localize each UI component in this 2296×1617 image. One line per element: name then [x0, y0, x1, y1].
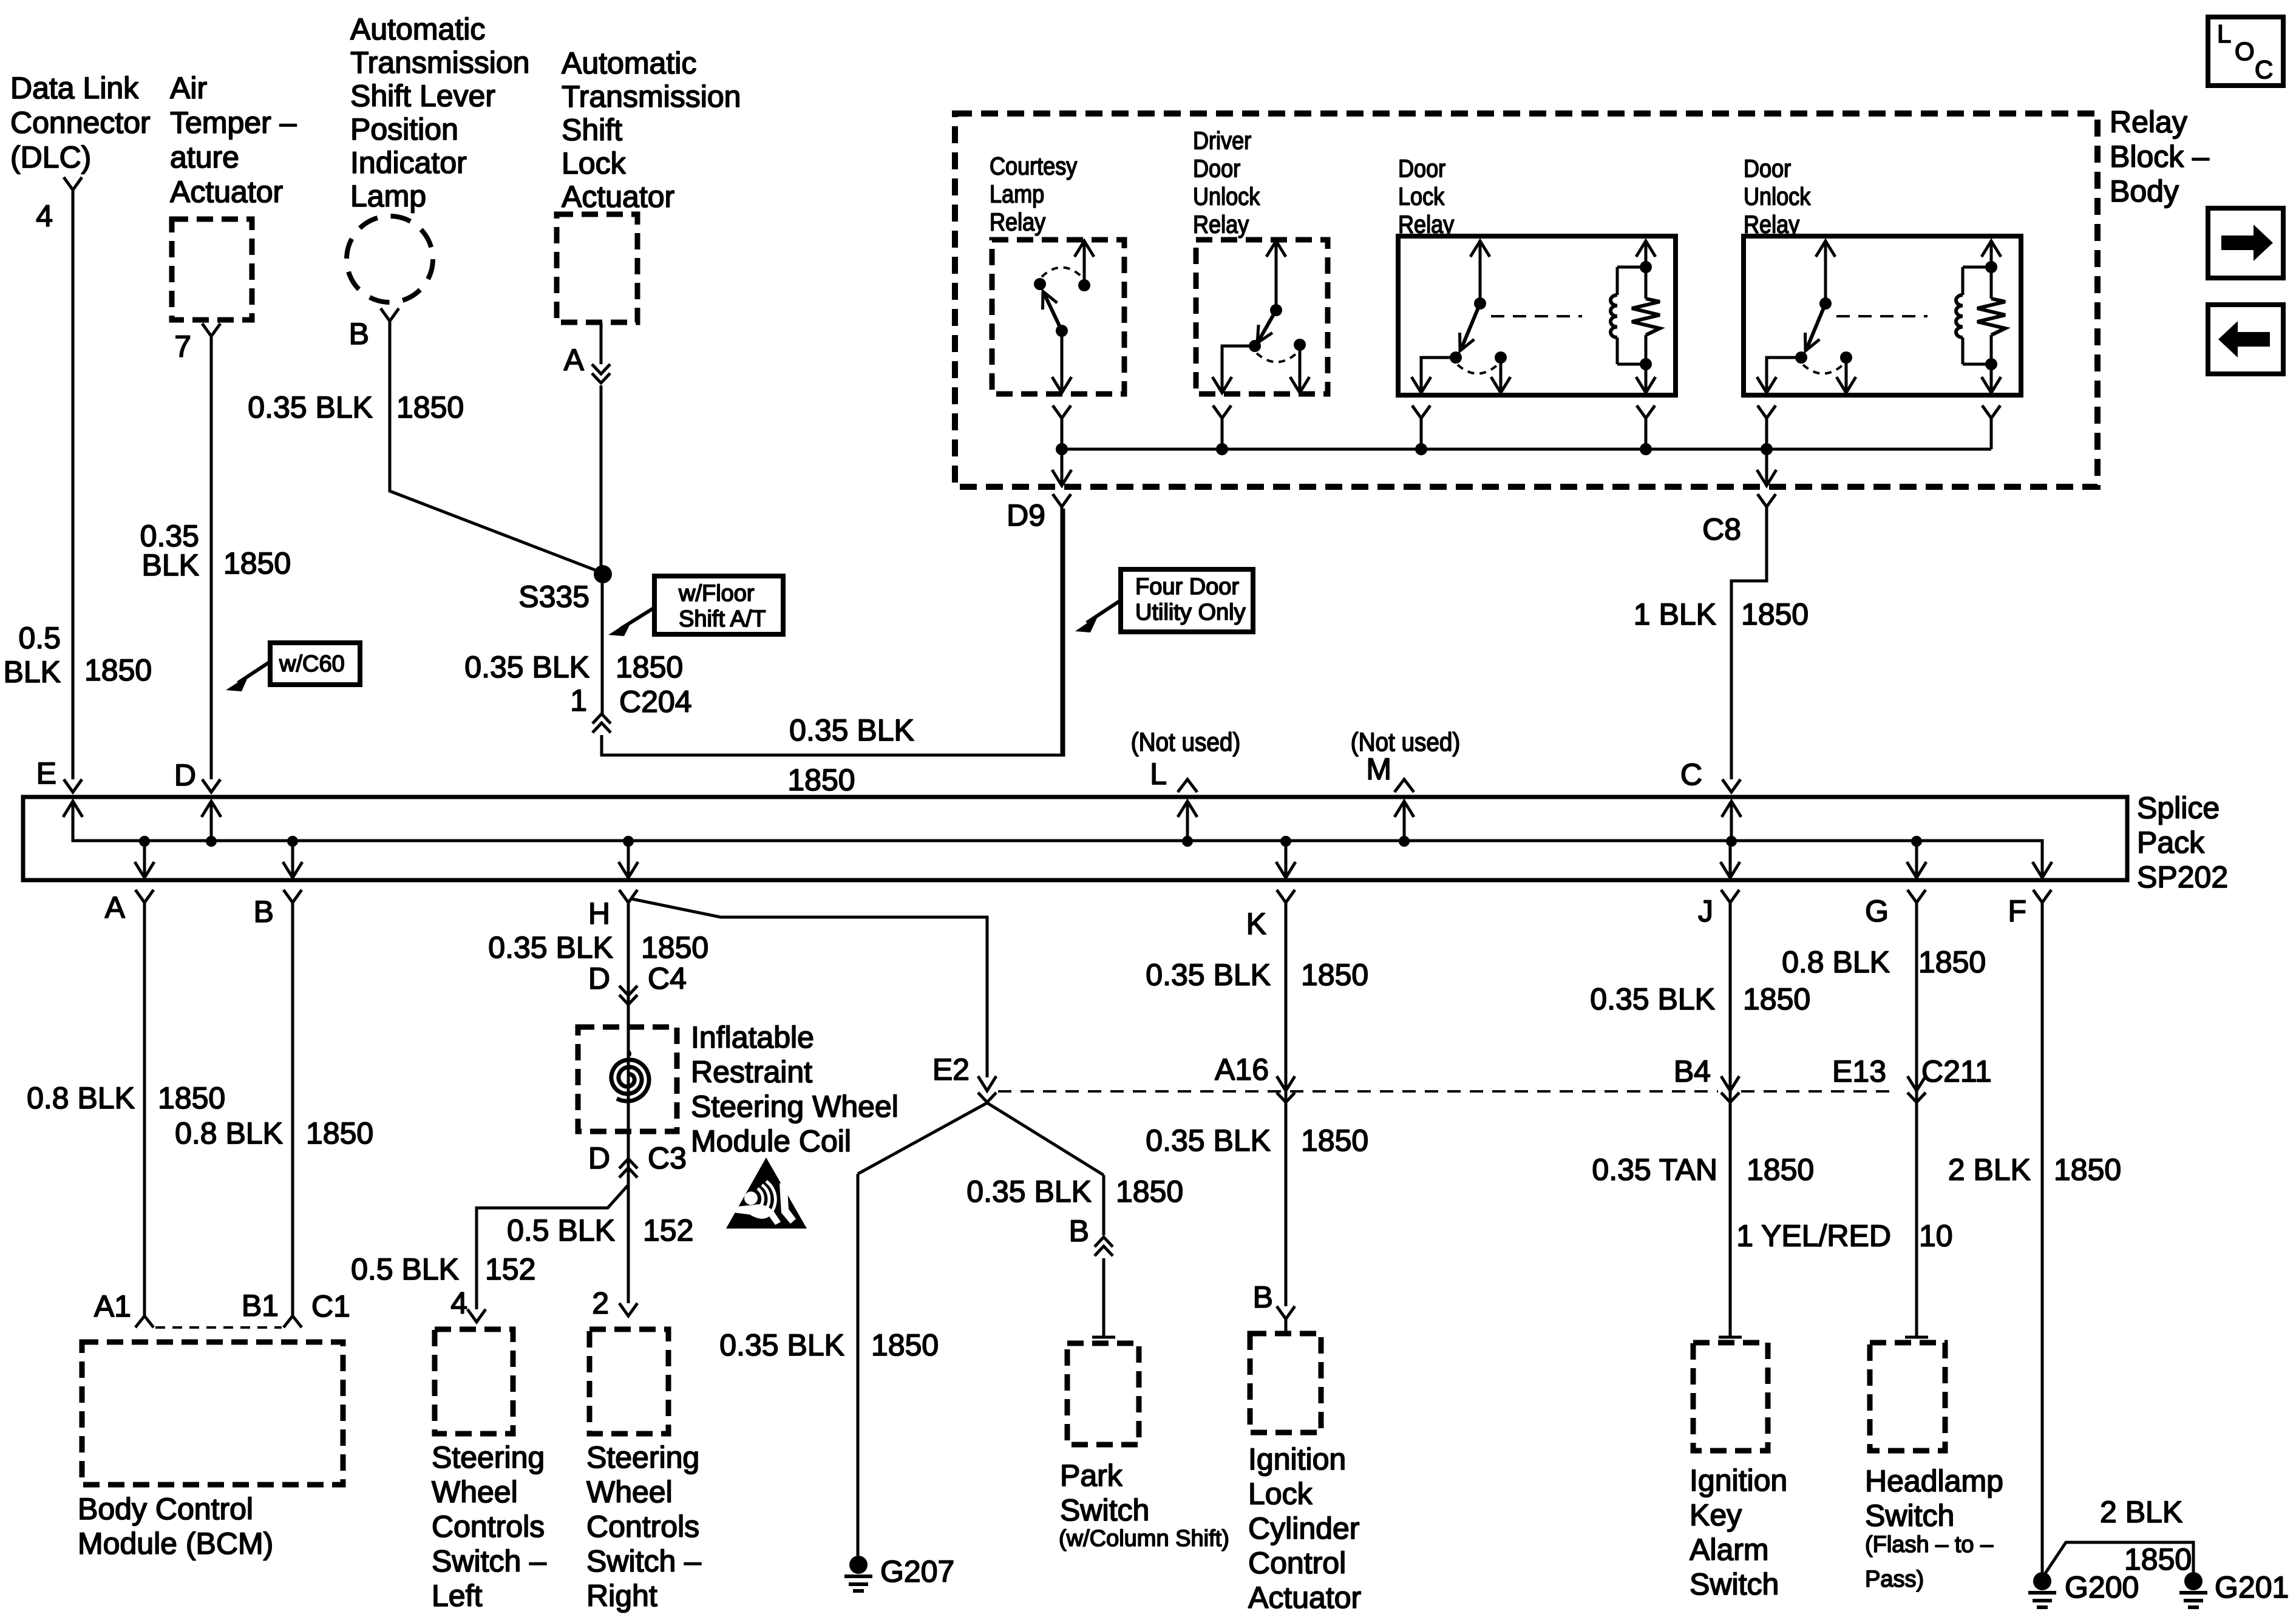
- inline connector C4 chevrons: [619, 986, 637, 1005]
- svg-text:M: M: [1366, 752, 1391, 786]
- svg-text:(w/Column Shift): (w/Column Shift): [1059, 1526, 1229, 1551]
- svg-text:1850: 1850: [1747, 1153, 1814, 1187]
- svg-text:Wheel: Wheel: [432, 1475, 518, 1509]
- wire C8 to splice C (1 BLK 1850): [1731, 507, 1767, 779]
- wire splice A to BCM A1 (0.8 BLK 1850): [143, 903, 146, 1316]
- svg-text:Cylinder: Cylinder: [1248, 1511, 1359, 1545]
- svg-text:Courtesy: Courtesy: [990, 152, 1078, 180]
- svg-text:2 BLK: 2 BLK: [2100, 1495, 2182, 1529]
- svg-text:1: 1: [570, 683, 587, 717]
- wire splice H to E2 (0.35 BLK 1850): [632, 899, 987, 1077]
- wire lamp B to S335 (0.35 BLK 1850): [390, 321, 603, 573]
- svg-text:152: 152: [485, 1252, 535, 1286]
- svg-text:1 YEL/RED: 1 YEL/RED: [1736, 1219, 1891, 1253]
- Door Lock Relay coil ground arrow: [1645, 364, 1648, 390]
- svg-text:Right: Right: [586, 1579, 657, 1613]
- svg-text:1 BLK: 1 BLK: [1634, 597, 1716, 631]
- svg-text:1850: 1850: [1301, 1124, 1368, 1158]
- svg-text:Restraint: Restraint: [691, 1055, 812, 1089]
- Door Lock Relay solid box: [1398, 236, 1676, 395]
- svg-text:1850: 1850: [1741, 597, 1809, 631]
- svg-text:Lock: Lock: [1398, 183, 1445, 211]
- svg-text:Alarm: Alarm: [1690, 1533, 1769, 1567]
- connector Y below splice (B): [284, 890, 302, 903]
- Splice Pack SP202 box: [23, 797, 2127, 880]
- connector Y below splice (A): [135, 890, 154, 903]
- svg-text:Utility Only: Utility Only: [1135, 600, 1246, 625]
- wire to relay block bus: [1221, 418, 1224, 449]
- Inflatable Restraint Steering Wheel Module Coil dashed box: [578, 1027, 677, 1131]
- mech link dashed arc: [1803, 364, 1844, 374]
- A/T Shift Lock Actuator dashed box: [557, 214, 637, 322]
- svg-text:Lock: Lock: [562, 146, 627, 180]
- svg-text:Headlamp: Headlamp: [1865, 1464, 2003, 1498]
- connector Y below DDU relay: [1213, 405, 1231, 418]
- inline connector C3 chevrons: [619, 1159, 637, 1178]
- svg-text:1850: 1850: [84, 653, 152, 687]
- svg-text:2: 2: [592, 1286, 609, 1320]
- svg-text:0.35 BLK: 0.35 BLK: [488, 931, 613, 964]
- bus junction (driver door unlock relay): [1216, 443, 1228, 455]
- svg-text:Driver: Driver: [1193, 127, 1251, 155]
- wire splice F to ground G200 (2 BLK 1850): [2041, 903, 2044, 1572]
- svg-text:Relay: Relay: [2110, 105, 2187, 139]
- Door Unlock Relay coil feed arrow: [1990, 244, 1993, 267]
- svg-text:Switch: Switch: [1690, 1567, 1779, 1601]
- wire to park switch pin B (0.35 BLK 1850): [1102, 1175, 1106, 1235]
- svg-text:G207: G207: [880, 1554, 954, 1588]
- wire to ground G207 (0.35 BLK 1850): [857, 1174, 860, 1556]
- svg-text:J: J: [1698, 894, 1713, 928]
- wire DDU right contact: [1299, 345, 1302, 390]
- svg-text:L: L: [2217, 19, 2231, 48]
- svg-text:0.35 TAN: 0.35 TAN: [1592, 1153, 1717, 1187]
- svg-text:Actuator: Actuator: [170, 175, 283, 209]
- svg-text:Switch: Switch: [1060, 1493, 1149, 1527]
- svg-text:Relay: Relay: [990, 208, 1046, 236]
- svg-text:Body Control: Body Control: [78, 1492, 253, 1526]
- wire splice J to ignition key alarm switch: [1729, 903, 1732, 1337]
- wire to relay block bus: [1061, 418, 1064, 449]
- svg-text:Key: Key: [1690, 1498, 1742, 1532]
- svg-text:H: H: [588, 897, 610, 931]
- Door Lock Relay coil: [1617, 266, 1646, 269]
- Door Unlock Relay coil ground arrow: [1990, 364, 1993, 390]
- svg-text:BLK: BLK: [3, 655, 61, 689]
- Door Lock Relay mechanical dashed link to coil: [1491, 315, 1582, 317]
- svg-text:Actuator: Actuator: [562, 180, 674, 214]
- mech link dashed arc: [1042, 267, 1083, 278]
- svg-text:Shift: Shift: [562, 113, 622, 147]
- wire to relay block bus: [1765, 418, 1768, 449]
- svg-text:Ignition: Ignition: [1248, 1442, 1346, 1476]
- svg-text:Controls: Controls: [586, 1510, 699, 1544]
- svg-text:C211: C211: [1921, 1054, 1992, 1088]
- svg-text:Switch –: Switch –: [432, 1544, 546, 1578]
- svg-text:Relay: Relay: [1193, 211, 1249, 239]
- connector Y at ILCCA pin B: [1277, 1306, 1295, 1319]
- connector Y at SWC-right pin 2: [619, 1303, 637, 1316]
- svg-text:Air: Air: [170, 71, 207, 105]
- svg-text:Steering Wheel: Steering Wheel: [691, 1090, 898, 1124]
- svg-text:Four Door: Four Door: [1135, 574, 1239, 600]
- svg-text:Steering: Steering: [586, 1440, 699, 1474]
- wire splice K to ignition lock cylinder (0.35 BLK 1850): [1285, 903, 1288, 1306]
- connector Y at relay block pin D9: [1053, 494, 1071, 507]
- connector Y below Door Unlock Relay (left exit): [1758, 405, 1776, 418]
- Door Unlock Relay wire left contact to exit: [1767, 358, 1801, 390]
- svg-text:Switch –: Switch –: [586, 1544, 701, 1578]
- bus junction A: [139, 836, 150, 847]
- svg-text:ature: ature: [170, 140, 239, 174]
- svg-text:Park: Park: [1060, 1459, 1123, 1493]
- svg-text:Splice: Splice: [2137, 791, 2220, 825]
- svg-text:Door: Door: [1744, 155, 1791, 183]
- svg-text:0.5 BLK: 0.5 BLK: [507, 1213, 615, 1247]
- wire DDU left contact to output: [1222, 346, 1255, 390]
- svg-text:Position: Position: [350, 112, 458, 146]
- terminal chevron M (not used): [1394, 779, 1414, 792]
- svg-text:E2: E2: [932, 1053, 970, 1086]
- svg-text:1850: 1850: [2054, 1153, 2121, 1187]
- svg-text:Module (BCM): Module (BCM): [78, 1527, 273, 1561]
- callout arrow: [620, 608, 654, 629]
- svg-text:(Not used): (Not used): [1131, 727, 1241, 756]
- bus junction L: [1182, 836, 1193, 847]
- Door Lock Relay coil feed arrow: [1645, 244, 1648, 267]
- svg-text:0.8 BLK: 0.8 BLK: [27, 1081, 135, 1115]
- svg-text:Left: Left: [432, 1579, 483, 1613]
- svg-text:BLK: BLK: [141, 548, 199, 582]
- splice entry arrow E: [63, 801, 83, 817]
- svg-text:Connector: Connector: [10, 106, 151, 140]
- splice S335: [594, 565, 612, 583]
- wire DLC pin4 to splice E (0.5 BLK 1850): [72, 190, 75, 779]
- Door Lock Relay wire right contact: [1500, 358, 1503, 390]
- Door Unlock Relay wire right contact: [1845, 358, 1848, 390]
- bus junction C: [1726, 836, 1737, 847]
- svg-text:B1: B1: [242, 1289, 279, 1323]
- wire C204 to relay block D9 (0.35 BLK 1850): [602, 509, 1064, 755]
- svg-text:E13: E13: [1832, 1054, 1886, 1088]
- splice exit arrow F: [2033, 862, 2052, 878]
- svg-text:D: D: [174, 758, 196, 792]
- wire shift lock actuator pin A: [600, 322, 603, 364]
- svg-text:Wheel: Wheel: [586, 1475, 673, 1509]
- legend box: arrow right: [2208, 208, 2283, 278]
- connector Y below Door Unlock Relay (coil exit): [1982, 405, 2000, 418]
- wire D9 down to C204 run: [1061, 507, 1064, 755]
- svg-text:Actuator: Actuator: [1248, 1581, 1361, 1615]
- wire to relay block bus: [1645, 418, 1648, 449]
- svg-text:0.35 BLK: 0.35 BLK: [248, 390, 373, 424]
- svg-text:1850: 1850: [871, 1328, 939, 1362]
- svg-text:1850: 1850: [306, 1116, 373, 1150]
- inline connector chevrons (park B): [1095, 1237, 1113, 1256]
- Ignition Key Alarm Switch dashed box: [1693, 1343, 1768, 1451]
- svg-text:Pack: Pack: [2137, 825, 2205, 859]
- svg-text:Pass): Pass): [1865, 1567, 1924, 1592]
- svg-text:(DLC): (DLC): [10, 140, 91, 174]
- wire to relay block bus: [1990, 418, 1993, 449]
- svg-text:G: G: [1865, 894, 1889, 928]
- connector Y above splice (E): [64, 779, 82, 792]
- svg-text:1850: 1850: [1743, 982, 1810, 1016]
- splice exit arrow at x=2118: [1285, 841, 1288, 876]
- svg-text:F: F: [2008, 894, 2026, 928]
- svg-text:C: C: [2255, 55, 2273, 84]
- splice entry arrow D: [210, 801, 213, 841]
- svg-text:(Flash – to –: (Flash – to –: [1865, 1532, 1994, 1558]
- svg-text:1850: 1850: [1301, 958, 1368, 992]
- svg-text:Module Coil: Module Coil: [691, 1124, 851, 1158]
- Door Unlock Relay mechanical dashed link to coil: [1836, 315, 1927, 317]
- BCM pin fork A1: [135, 1316, 154, 1327]
- svg-text:0.5 BLK: 0.5 BLK: [351, 1252, 459, 1286]
- ignition key alarm switch pin stub: [1719, 1336, 1742, 1339]
- svg-text:152: 152: [643, 1213, 693, 1247]
- headlamp switch pin stub: [1905, 1336, 1928, 1339]
- connector Y below splice (K): [1277, 890, 1295, 903]
- svg-text:A: A: [105, 890, 126, 924]
- terminal chevron L (not used): [1178, 779, 1197, 792]
- Body Control Module dashed box: [82, 1342, 343, 1485]
- pass-through connector B4: [1721, 1076, 1739, 1102]
- Steering Wheel Controls Switch - Right dashed box: [589, 1329, 668, 1434]
- pass-through connector A16: [1277, 1076, 1295, 1102]
- ground G201: [2184, 1572, 2203, 1590]
- relay block internal ground bus: [1062, 448, 1991, 451]
- svg-text:Switch: Switch: [1865, 1499, 1954, 1533]
- connector Y at lamp pin B: [381, 308, 399, 321]
- svg-text:D: D: [588, 961, 610, 995]
- svg-text:1850: 1850: [641, 931, 708, 964]
- svg-text:Door: Door: [1193, 155, 1240, 183]
- wire bus to D9 pin: [1061, 449, 1064, 484]
- splice exit arrow at x=238: [143, 841, 146, 876]
- callout box: w/C60: [270, 643, 360, 685]
- wire S335 to C204 pin 1 (0.35 BLK 1850): [601, 574, 604, 714]
- svg-text:0.35 BLK: 0.35 BLK: [1146, 1124, 1271, 1158]
- BCM pin fork B1/C1: [284, 1316, 302, 1327]
- svg-text:0.5: 0.5: [18, 621, 61, 655]
- wire bus to C8 pin: [1765, 449, 1768, 484]
- svg-text:1850: 1850: [2124, 1542, 2192, 1576]
- svg-text:L: L: [1150, 757, 1167, 791]
- wire out of clockspring: [627, 1102, 630, 1131]
- svg-text:A1: A1: [94, 1289, 131, 1323]
- connector Y at SWC-left pin 4: [467, 1309, 486, 1322]
- wire to relay block bus: [1420, 418, 1423, 449]
- Park Switch dashed box: [1067, 1343, 1139, 1445]
- connector Y at DLC pin 4: [64, 177, 82, 190]
- mech link dashed arc: [1257, 352, 1298, 362]
- option dashed line E2-A16-B4-E13: [998, 1090, 1718, 1093]
- wire G200 to G201 (2 BLK 1850): [2045, 1542, 2193, 1573]
- pass-through connector E2: [978, 1076, 996, 1102]
- Relay Block - Body outer dashed box: [955, 114, 2097, 487]
- svg-text:Body: Body: [2110, 174, 2179, 208]
- svg-text:Inflatable: Inflatable: [691, 1020, 814, 1054]
- legend box: arrow left: [2208, 305, 2283, 374]
- svg-text:w/C60: w/C60: [279, 651, 345, 677]
- A/T shift lever position indicator lamp dashed circle: [347, 216, 433, 302]
- svg-text:0.35 BLK: 0.35 BLK: [464, 650, 589, 684]
- svg-text:1850: 1850: [396, 390, 464, 424]
- connector Y above splice (D): [202, 779, 220, 792]
- svg-text:1850: 1850: [1918, 945, 1986, 979]
- svg-text:C8: C8: [1702, 512, 1741, 546]
- Door Unlock Relay coil suppression resistor: [1985, 261, 1997, 273]
- Driver Door Unlock Relay dashed box: [1196, 240, 1328, 394]
- wire air temp to splice D (0.35 BLK 1850): [210, 336, 213, 779]
- splice entry arrow M (not used): [1403, 801, 1406, 841]
- wire into clockspring: [627, 1027, 630, 1053]
- Door Unlock Relay coil: [1963, 266, 1991, 269]
- Headlamp Switch dashed box: [1870, 1343, 1945, 1451]
- connector Y below splice (F): [2033, 890, 2051, 903]
- connector Y below splice (G): [1907, 890, 1926, 903]
- Door Lock Relay wire left contact to exit: [1421, 358, 1456, 390]
- mech link dashed arc: [1458, 364, 1499, 374]
- svg-text:Automatic: Automatic: [562, 46, 696, 80]
- splice exit arrow at x=2850: [1729, 841, 1732, 876]
- svg-text:Automatic: Automatic: [350, 12, 485, 46]
- Door Lock Relay coil suppression resistor: [1640, 261, 1652, 273]
- svg-text:Unlock: Unlock: [1193, 183, 1260, 211]
- svg-text:0.35 BLK: 0.35 BLK: [1146, 958, 1271, 992]
- svg-text:0.35 BLK: 0.35 BLK: [1590, 982, 1715, 1016]
- svg-text:C4: C4: [648, 961, 687, 995]
- Courtesy Lamp Relay dashed box: [992, 240, 1124, 394]
- svg-text:10: 10: [1919, 1219, 1953, 1253]
- svg-text:w/Floor: w/Floor: [678, 581, 755, 606]
- bus junction (courtesy relay): [1056, 443, 1068, 455]
- svg-text:D9: D9: [1007, 498, 1045, 532]
- svg-text:1850: 1850: [158, 1081, 225, 1115]
- svg-text:C1: C1: [311, 1289, 350, 1323]
- bus junction G: [1911, 836, 1922, 847]
- svg-text:1850: 1850: [223, 546, 291, 580]
- splice entry arrow L (not used): [1186, 801, 1189, 841]
- svg-text:4: 4: [450, 1286, 467, 1320]
- svg-text:S335: S335: [518, 580, 589, 614]
- svg-text:C3: C3: [648, 1141, 687, 1175]
- wire to park switch: [1102, 1258, 1106, 1337]
- bus junction H: [623, 836, 634, 847]
- svg-text:C: C: [1680, 758, 1702, 792]
- BCM connector dashed link: [155, 1326, 282, 1329]
- wire E2 to park switch branch: [987, 1103, 1104, 1175]
- connector Y below Door Lock Relay (left exit): [1412, 405, 1430, 418]
- svg-text:Controls: Controls: [432, 1510, 545, 1544]
- splice exit arrow at x=1035: [627, 841, 630, 876]
- svg-text:Lamp: Lamp: [350, 179, 426, 213]
- svg-text:O: O: [2235, 37, 2255, 66]
- splice exit arrow at x=482: [291, 841, 294, 876]
- connector Y above splice (C): [1722, 779, 1741, 792]
- svg-text:G201: G201: [2215, 1570, 2289, 1604]
- callout box: Four Door Utility Only: [1121, 569, 1253, 632]
- bus junction (door lock relay coil): [1640, 443, 1652, 455]
- svg-text:E: E: [36, 756, 56, 790]
- svg-text:0.35 BLK: 0.35 BLK: [719, 1328, 844, 1362]
- splice pack internal bus: [73, 801, 2042, 878]
- svg-text:0.35 BLK: 0.35 BLK: [789, 713, 914, 747]
- svg-text:Data Link: Data Link: [10, 71, 139, 105]
- svg-text:A: A: [564, 343, 585, 377]
- pass-through connector E13/C211: [1907, 1076, 1926, 1102]
- Door Unlock Relay solid box: [1744, 236, 2021, 395]
- wire splice H down through SRS coil (0.35 BLK 1850): [627, 903, 630, 1303]
- svg-text:SP202: SP202: [2137, 860, 2228, 894]
- svg-text:0.8 BLK: 0.8 BLK: [175, 1116, 283, 1150]
- splice entry arrow C: [1730, 801, 1733, 841]
- svg-text:2 BLK: 2 BLK: [1948, 1153, 2031, 1187]
- wire courtesy relay output: [1061, 331, 1064, 390]
- callout arrow: [1087, 600, 1121, 623]
- svg-text:B4: B4: [1674, 1054, 1711, 1088]
- park switch pin stub: [1092, 1336, 1115, 1339]
- clockspring coil spiral: [611, 1060, 649, 1101]
- connector Y at Air Temp pin 7: [202, 324, 220, 336]
- callout arrow: [238, 662, 270, 683]
- connector Y below courtesy relay: [1053, 405, 1071, 418]
- svg-text:C204: C204: [619, 685, 692, 719]
- connector Y below splice (H): [619, 890, 637, 903]
- svg-text:1850: 1850: [787, 763, 855, 797]
- svg-text:Shift Lever: Shift Lever: [350, 79, 495, 113]
- LOC legend box: [2208, 17, 2283, 86]
- svg-text:B: B: [1253, 1280, 1273, 1314]
- svg-text:Shift A/T: Shift A/T: [679, 606, 766, 632]
- svg-text:1850: 1850: [1116, 1175, 1183, 1209]
- ground G200: [2033, 1572, 2051, 1590]
- svg-text:B: B: [1069, 1214, 1089, 1248]
- svg-text:7: 7: [174, 330, 191, 364]
- svg-text:0.8 BLK: 0.8 BLK: [1782, 945, 1890, 979]
- connector Y below Door Lock Relay (coil exit): [1637, 405, 1655, 418]
- bus junction D: [206, 836, 217, 847]
- svg-text:Indicator: Indicator: [350, 146, 467, 180]
- wire splice B to BCM B1 (0.8 BLK 1850): [291, 903, 294, 1316]
- svg-text:Unlock: Unlock: [1744, 183, 1811, 211]
- relay switch: fixed contacts, movable arm: [1034, 278, 1046, 290]
- svg-text:4: 4: [36, 199, 53, 233]
- svg-text:0.35 BLK: 0.35 BLK: [966, 1175, 1092, 1209]
- svg-text:Door: Door: [1398, 155, 1445, 183]
- wire to S335: [600, 385, 603, 573]
- connector Y at relay block pin C8: [1758, 494, 1776, 507]
- ground G207: [849, 1556, 868, 1574]
- Air Temperature Actuator dashed box: [172, 219, 252, 320]
- wire E2 to G207 branch: [858, 1103, 987, 1174]
- bus junction B: [287, 836, 298, 847]
- Ignition Lock Cylinder Control Actuator dashed box: [1250, 1334, 1321, 1432]
- inline connector chevrons (A): [592, 364, 610, 383]
- Door Unlock Relay switch: [1824, 243, 1827, 303]
- bus junction (door lock relay contact): [1415, 443, 1427, 455]
- svg-text:1850: 1850: [616, 650, 683, 684]
- svg-text:Steering: Steering: [432, 1440, 545, 1474]
- svg-text:B: B: [349, 317, 369, 351]
- svg-text:A16: A16: [1215, 1053, 1269, 1086]
- splice exit arrow at x=3157: [1915, 841, 1918, 876]
- svg-text:D: D: [588, 1141, 610, 1175]
- svg-text:Lock: Lock: [1248, 1477, 1313, 1511]
- bus junction K: [1280, 836, 1291, 847]
- inline connector C204 chevrons: [593, 714, 611, 733]
